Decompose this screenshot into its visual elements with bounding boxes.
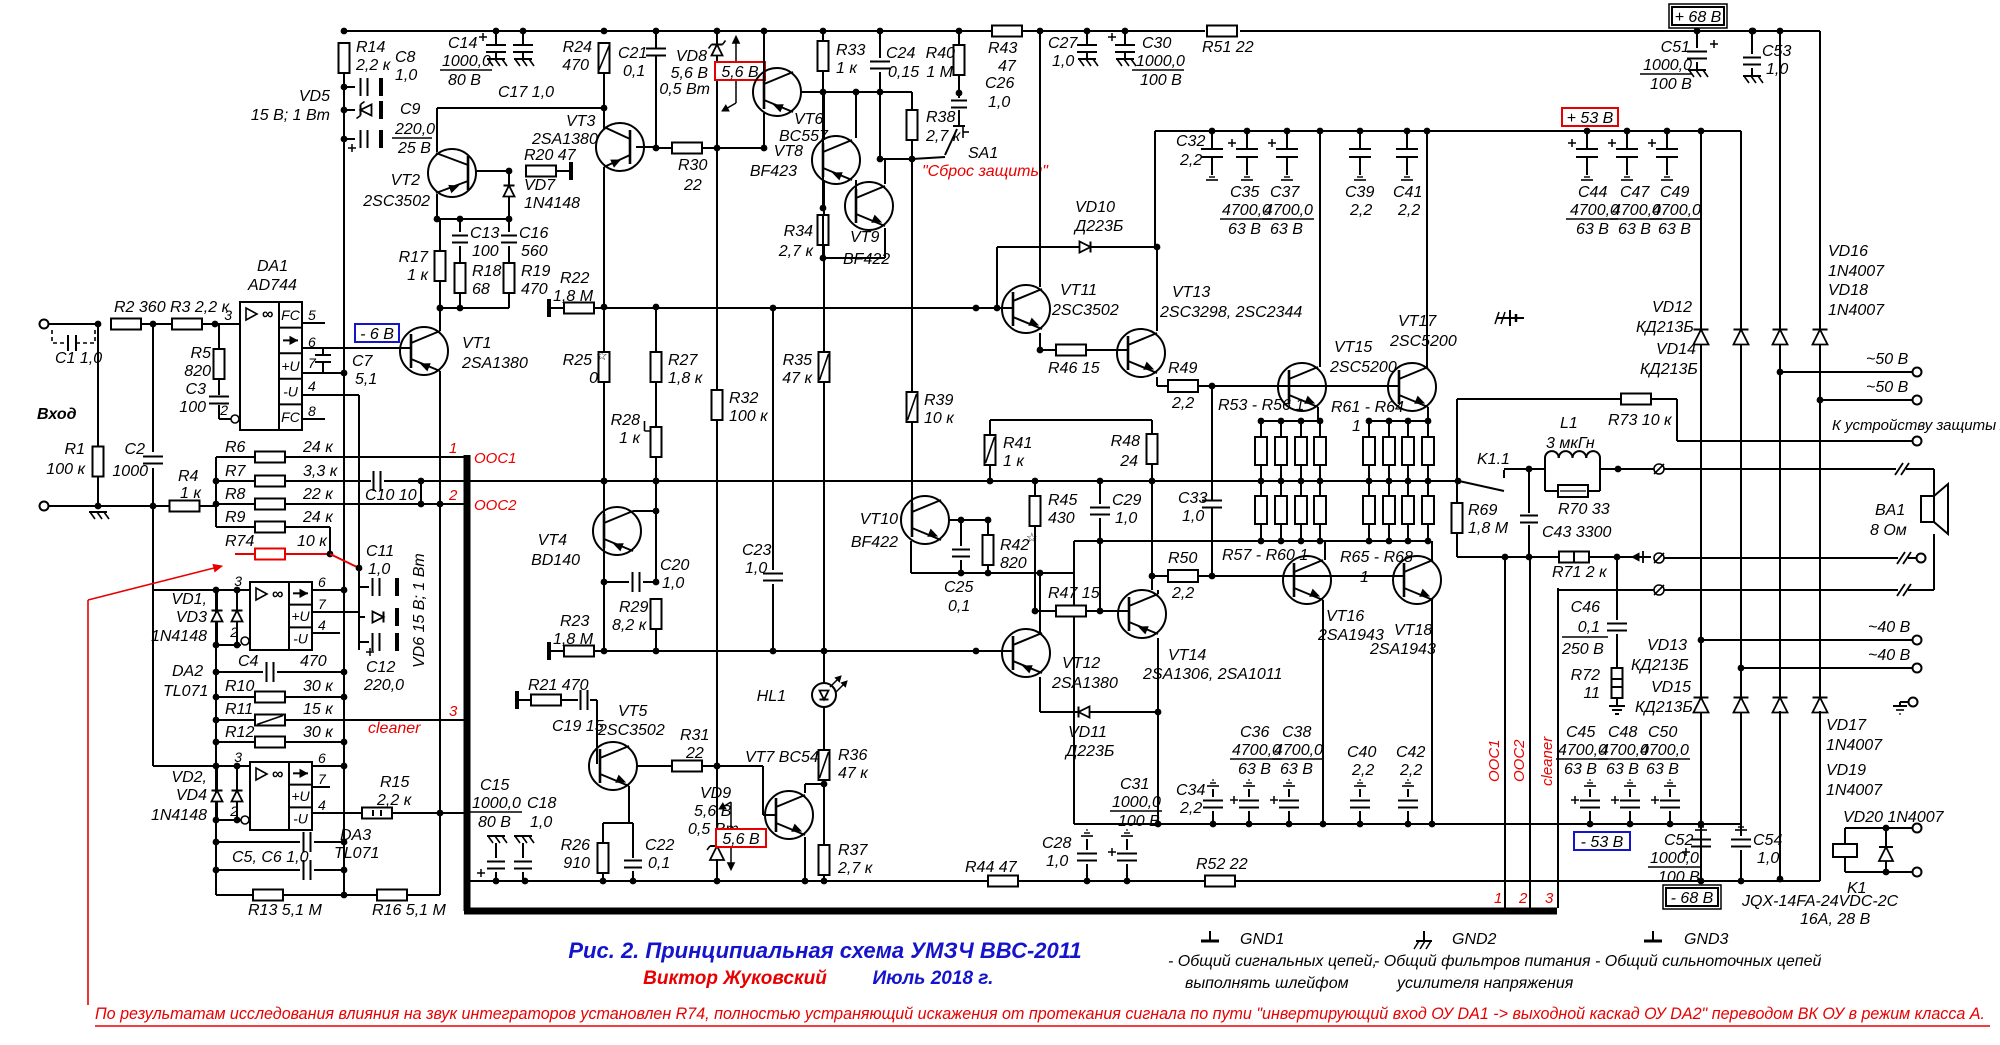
svg-text:2: 2 xyxy=(448,487,458,504)
resistor R22 xyxy=(564,303,594,314)
wire xyxy=(1600,468,1655,470)
underline C47 xyxy=(1610,218,1662,220)
junction xyxy=(1386,418,1393,425)
resistor R39 xyxy=(907,392,918,422)
svg-text:2,2: 2,2 xyxy=(1179,800,1202,817)
svg-text:- 6 В: - 6 В xyxy=(360,326,394,343)
wire xyxy=(508,293,510,308)
junction xyxy=(1258,418,1265,425)
label C1 xyxy=(55,350,102,367)
svg-text:выполнять шлейфом: выполнять шлейфом xyxy=(1185,975,1349,992)
junction xyxy=(958,570,965,577)
capacitor C48 xyxy=(1620,801,1640,808)
wire xyxy=(1528,469,1530,513)
wire xyxy=(655,31,657,48)
svg-text:1 к: 1 к xyxy=(836,60,858,77)
wire xyxy=(633,510,656,512)
label C54 xyxy=(1753,832,1782,849)
label VT9 type xyxy=(843,251,890,268)
wire +68V rail xyxy=(1240,30,1780,32)
wire xyxy=(1035,610,1056,612)
svg-text:220,0: 220,0 xyxy=(394,121,435,138)
svg-text:+U: +U xyxy=(281,358,300,374)
svg-text:ООС2: ООС2 xyxy=(1511,739,1528,782)
svg-text:470: 470 xyxy=(300,653,327,670)
R24 stripe xyxy=(599,46,609,70)
transistor VT1 xyxy=(400,327,448,375)
svg-text:VT12: VT12 xyxy=(1062,655,1100,672)
svg-text:C39: C39 xyxy=(1345,184,1374,201)
label VD12 xyxy=(1652,299,1692,316)
label K1.1 xyxy=(1477,451,1510,468)
capacitor C51 xyxy=(1687,52,1707,59)
label C35 xyxy=(1230,184,1259,201)
pin 4 xyxy=(308,378,316,394)
wire main feedback line xyxy=(384,480,1460,482)
shield C48 xyxy=(1624,780,1636,786)
resistor bank xyxy=(1295,496,1307,524)
svg-text:VD17: VD17 xyxy=(1826,717,1867,734)
svg-text:R36: R36 xyxy=(838,747,867,764)
label C36 value xyxy=(1232,742,1281,759)
label C15 volt xyxy=(478,814,511,831)
svg-text:1N4007: 1N4007 xyxy=(1828,263,1885,280)
svg-text:R46 15: R46 15 xyxy=(1048,360,1100,377)
label C39 xyxy=(1345,184,1374,201)
label C51 volt xyxy=(1650,76,1692,93)
plus xyxy=(1108,848,1116,856)
svg-text:47 к: 47 к xyxy=(838,765,869,782)
wire xyxy=(459,219,461,232)
label GND3 xyxy=(1684,931,1729,948)
resistor R38 xyxy=(907,110,918,140)
junction xyxy=(994,305,1001,312)
wire lower node line xyxy=(1074,540,1428,542)
label R5 value xyxy=(184,363,211,380)
svg-text:R49: R49 xyxy=(1168,360,1197,377)
svg-text:1,0: 1,0 xyxy=(988,94,1010,111)
label C17 xyxy=(498,84,554,101)
svg-text:VT2: VT2 xyxy=(391,172,420,189)
label R34 value xyxy=(778,243,815,260)
wire xyxy=(1407,465,1409,496)
label C16 value xyxy=(521,243,548,260)
label C32 xyxy=(1176,133,1205,150)
wire xyxy=(1528,525,1530,557)
svg-text:1,0: 1,0 xyxy=(662,575,684,592)
label R46 xyxy=(1048,360,1100,377)
svg-text:R69: R69 xyxy=(1468,502,1497,519)
plus xyxy=(1230,796,1238,804)
svg-text:усилителя напряжения: усилителя напряжения xyxy=(1396,975,1574,992)
arrow VD8 xyxy=(722,36,740,111)
svg-text:2SA1380: 2SA1380 xyxy=(531,131,598,148)
wire xyxy=(1616,634,1618,668)
svg-text:C21: C21 xyxy=(618,45,647,62)
svg-text:C41: C41 xyxy=(1393,184,1422,201)
transistor VT13 xyxy=(1117,329,1165,377)
label VD17 type xyxy=(1826,737,1883,754)
capacitor C47 plus xyxy=(1608,139,1616,147)
resistor R71 xyxy=(1559,552,1589,563)
zener VD8 xyxy=(709,41,726,56)
svg-text:BF423: BF423 xyxy=(750,163,797,180)
wire xyxy=(508,171,510,185)
svg-text:C47: C47 xyxy=(1620,184,1650,201)
svg-text:2SC5200: 2SC5200 xyxy=(1389,333,1457,350)
svg-text:4: 4 xyxy=(308,378,316,394)
resistor R24 xyxy=(599,43,610,73)
svg-text:VD16: VD16 xyxy=(1828,243,1868,260)
svg-text:R11: R11 xyxy=(225,701,253,718)
label VD16 type xyxy=(1828,263,1885,280)
label C49 value xyxy=(1652,202,1701,219)
label R49 value xyxy=(1171,395,1194,412)
wire xyxy=(1319,421,1321,437)
wire R74 red xyxy=(285,553,330,555)
capacitor C30 plus xyxy=(1108,33,1116,41)
svg-text:63 В: 63 В xyxy=(1606,761,1639,778)
svg-text:5: 5 xyxy=(308,307,316,323)
label R74 value xyxy=(297,533,328,550)
wire zener column xyxy=(358,568,360,650)
capacitor C17 xyxy=(513,31,533,59)
svg-text:R38: R38 xyxy=(926,109,955,126)
resistor R10 xyxy=(255,692,285,703)
svg-text:DA1: DA1 xyxy=(257,258,288,275)
svg-text:C22: C22 xyxy=(645,837,674,854)
wire -68V rail xyxy=(468,880,974,882)
svg-text:63 В: 63 В xyxy=(1658,221,1691,238)
resistor R50 xyxy=(1168,570,1198,582)
label R14 xyxy=(356,39,385,56)
wire xyxy=(1300,524,1302,541)
svg-text:2SC3298, 2SC2344: 2SC3298, 2SC2344 xyxy=(1159,304,1302,321)
wire xyxy=(655,481,657,582)
capacitor C21 xyxy=(646,49,666,56)
label DA1 xyxy=(257,258,288,275)
junction xyxy=(714,878,721,885)
label R11 xyxy=(225,701,253,718)
svg-text:VT11: VT11 xyxy=(1060,282,1097,299)
wire xyxy=(556,170,569,172)
resistor R11 xyxy=(255,715,285,726)
shield mark xyxy=(1081,830,1093,836)
svg-text:R31: R31 xyxy=(680,727,709,744)
label cleaner xyxy=(368,720,421,737)
wire xyxy=(1086,610,1129,612)
junction xyxy=(418,478,425,485)
svg-text:R73 10 к: R73 10 к xyxy=(1608,412,1673,429)
capacitor C1 xyxy=(52,330,95,351)
inductor L1 xyxy=(1545,451,1600,458)
resistor R73 xyxy=(1621,394,1651,405)
label GND3 d1 xyxy=(1595,953,1822,970)
label R53-R56 xyxy=(1218,397,1304,414)
resistor bank xyxy=(1314,496,1326,524)
svg-text:VD7: VD7 xyxy=(524,177,556,194)
svg-text:R70 33: R70 33 xyxy=(1558,501,1610,518)
junction xyxy=(1032,608,1039,615)
svg-text:1000,0: 1000,0 xyxy=(1112,794,1161,811)
label R71 xyxy=(1552,564,1608,581)
label R33 xyxy=(836,42,865,59)
label C14 value xyxy=(442,53,491,70)
R72 inner xyxy=(1612,679,1622,687)
label K1 volt xyxy=(1800,911,1871,928)
junction xyxy=(1694,28,1701,35)
label C18 xyxy=(527,795,556,812)
svg-text:C17 1,0: C17 1,0 xyxy=(498,84,554,101)
svg-text:+ 68 В: + 68 В xyxy=(1675,9,1722,26)
label R12 xyxy=(225,724,254,741)
label R38 xyxy=(926,109,955,126)
zener VD5 xyxy=(357,102,372,119)
wire xyxy=(1651,398,1677,400)
label R28 xyxy=(611,412,640,429)
svg-text:47 к: 47 к xyxy=(782,370,813,387)
svg-text:C26: C26 xyxy=(985,75,1014,92)
resistor R25 xyxy=(599,352,610,382)
terminal ~50V b xyxy=(1913,396,1922,405)
svg-text:R20 47: R20 47 xyxy=(524,147,577,164)
resistor R5 xyxy=(214,349,225,379)
speaker BA1 xyxy=(1921,484,1948,534)
svg-text:VD9: VD9 xyxy=(700,785,731,802)
svg-text:C53: C53 xyxy=(1762,43,1791,60)
shield C35 xyxy=(1241,174,1253,180)
capacitor at 1360 xyxy=(1350,801,1370,808)
label C8 value xyxy=(395,67,417,84)
wire xyxy=(436,108,438,152)
bar xyxy=(569,162,573,180)
svg-text:1,0: 1,0 xyxy=(395,67,417,84)
wire xyxy=(1844,828,1846,844)
label OOC2 xyxy=(474,497,517,514)
capacitor C16 xyxy=(501,236,517,243)
capacitor C46 xyxy=(1607,624,1627,631)
resistor R34 xyxy=(818,215,829,245)
diode VD11 xyxy=(1079,707,1090,718)
wire xyxy=(1300,421,1302,437)
shield C41 xyxy=(1401,174,1413,180)
capacitor C7 xyxy=(315,355,331,362)
wire xyxy=(823,92,825,140)
node -6V box xyxy=(355,324,399,343)
label C25 value xyxy=(948,598,970,615)
wire xyxy=(285,696,344,698)
svg-text:VT8: VT8 xyxy=(774,143,803,160)
resistor R12 xyxy=(255,737,285,748)
label R31 xyxy=(680,727,709,744)
svg-text:TL071: TL071 xyxy=(163,683,208,700)
svg-text:0,1: 0,1 xyxy=(623,63,645,80)
wire xyxy=(1300,465,1302,496)
svg-text:2SC5200: 2SC5200 xyxy=(1329,359,1397,376)
wire xyxy=(602,873,604,881)
label R13 xyxy=(248,902,322,919)
label C15 xyxy=(480,777,509,794)
svg-text:BD140: BD140 xyxy=(531,552,580,569)
terminal ~40V a xyxy=(1913,636,1922,645)
wire xyxy=(958,110,960,120)
svg-text:24 к: 24 к xyxy=(302,439,334,456)
wire xyxy=(911,500,913,520)
label R9 value xyxy=(302,509,334,526)
label C9 xyxy=(400,101,421,118)
wire xyxy=(655,629,657,651)
label C48 volt xyxy=(1606,761,1639,778)
resistor R29 xyxy=(651,599,662,629)
label C34 xyxy=(1176,782,1205,799)
node +53V box xyxy=(1562,108,1618,127)
svg-text:15 к: 15 к xyxy=(303,701,334,718)
junction xyxy=(327,551,334,558)
label ~40V b xyxy=(1868,647,1911,664)
label R70 xyxy=(1558,501,1610,518)
capacitor C41 xyxy=(1396,131,1418,175)
wire pin7 DA2 xyxy=(312,611,359,613)
label C7 xyxy=(352,353,374,370)
label R57-R60 xyxy=(1222,547,1308,564)
label C47 volt xyxy=(1618,221,1651,238)
label R8 xyxy=(225,486,246,503)
label R1 xyxy=(65,441,85,458)
svg-text:1 М: 1 М xyxy=(926,64,953,81)
svg-text:BA1: BA1 xyxy=(1875,502,1905,519)
wire xyxy=(1157,590,1159,594)
svg-text:3: 3 xyxy=(224,307,232,323)
wire xyxy=(1751,68,1753,76)
wire emitter column xyxy=(439,371,441,817)
wire xyxy=(823,257,885,259)
svg-text:24: 24 xyxy=(1119,453,1138,470)
label C2 value xyxy=(112,463,148,480)
junction xyxy=(1698,128,1705,135)
label R51 xyxy=(1202,39,1254,56)
wire xyxy=(1700,131,1702,330)
resistor R17 xyxy=(435,251,446,281)
capacitor C14 ground xyxy=(487,59,507,66)
underline C52 xyxy=(1648,866,1700,868)
GND1 symbol xyxy=(1201,931,1219,941)
label VT11 xyxy=(1060,282,1097,299)
label VD13 type xyxy=(1631,657,1689,674)
svg-text:BF422: BF422 xyxy=(843,251,890,268)
svg-text:C36: C36 xyxy=(1240,724,1269,741)
label K1 xyxy=(1847,880,1867,897)
svg-text:~40 В: ~40 В xyxy=(1868,647,1911,664)
svg-text:100 В: 100 В xyxy=(1658,869,1700,886)
label C35 volt xyxy=(1228,221,1261,238)
pin 7 xyxy=(318,596,327,612)
svg-text:Виктор Жуковский: Виктор Жуковский xyxy=(643,968,827,989)
wire xyxy=(519,699,531,701)
capacitor C13 xyxy=(452,236,468,243)
svg-text:+U: +U xyxy=(291,788,310,804)
svg-text:3: 3 xyxy=(1545,890,1554,907)
label C48 value xyxy=(1600,742,1649,759)
wire xyxy=(632,823,634,858)
svg-text:R72: R72 xyxy=(1571,667,1600,684)
wire xyxy=(216,503,255,505)
terminal ~40V b xyxy=(1913,664,1922,673)
chassis C53 xyxy=(1743,76,1763,83)
label R45 xyxy=(1048,492,1077,509)
svg-text:2SC3502: 2SC3502 xyxy=(597,722,665,739)
wire speaker line xyxy=(1664,468,1896,470)
junction xyxy=(1298,418,1305,425)
label VT16 xyxy=(1326,608,1364,625)
capacitor C4 xyxy=(267,662,274,682)
junction xyxy=(1614,554,1621,561)
svg-text:R19: R19 xyxy=(521,263,550,280)
label C22 xyxy=(645,837,674,854)
wire xyxy=(822,31,824,41)
svg-text:VD11: VD11 xyxy=(1068,724,1107,741)
label C4 xyxy=(238,653,259,670)
mark xyxy=(1654,585,1664,595)
label R24 value xyxy=(562,57,589,74)
label R50 xyxy=(1168,550,1197,567)
svg-text:7: 7 xyxy=(318,596,327,612)
label C23 xyxy=(742,542,771,559)
diode VD7 xyxy=(504,186,515,197)
wire xyxy=(911,422,913,500)
label C31 volt xyxy=(1118,813,1160,830)
resistor R8 xyxy=(255,499,285,510)
svg-text:0,1: 0,1 xyxy=(1578,619,1600,636)
underline C15 xyxy=(470,811,522,813)
svg-text:3: 3 xyxy=(449,703,458,720)
label VT2 xyxy=(391,172,420,189)
mark xyxy=(1654,464,1664,474)
svg-text:VT3: VT3 xyxy=(566,113,595,130)
svg-text:C25: C25 xyxy=(944,579,973,596)
junction xyxy=(1209,128,1216,135)
svg-text:cleaner: cleaner xyxy=(1539,736,1556,786)
wire pin4 column xyxy=(358,395,360,568)
label C30 volt xyxy=(1140,72,1182,89)
wire xyxy=(437,307,509,309)
wire xyxy=(1885,828,1887,847)
label R33 value xyxy=(836,60,858,77)
svg-text:C37: C37 xyxy=(1270,184,1300,201)
svg-text:560: 560 xyxy=(521,243,548,260)
wire xyxy=(216,894,252,896)
junction xyxy=(820,205,827,212)
junction xyxy=(1883,825,1890,832)
wire VAS input line xyxy=(594,307,1013,309)
label DA2 xyxy=(172,663,203,680)
wire xyxy=(1407,524,1409,541)
svg-text:R27: R27 xyxy=(668,352,698,369)
wire xyxy=(603,382,605,481)
resistor R23 xyxy=(564,646,594,657)
wire xyxy=(216,590,218,611)
wire -53V rail xyxy=(1074,823,1711,825)
pin 2 xyxy=(229,624,249,645)
label R47 xyxy=(1048,585,1100,602)
label R41 xyxy=(1003,435,1032,452)
wire xyxy=(1700,824,1702,836)
label C13 xyxy=(470,225,499,242)
label R26 xyxy=(561,837,590,854)
junction xyxy=(877,156,884,163)
resistor R46 xyxy=(1056,345,1086,356)
svg-text:R9: R9 xyxy=(225,509,246,526)
svg-text:BF422: BF422 xyxy=(851,534,898,551)
